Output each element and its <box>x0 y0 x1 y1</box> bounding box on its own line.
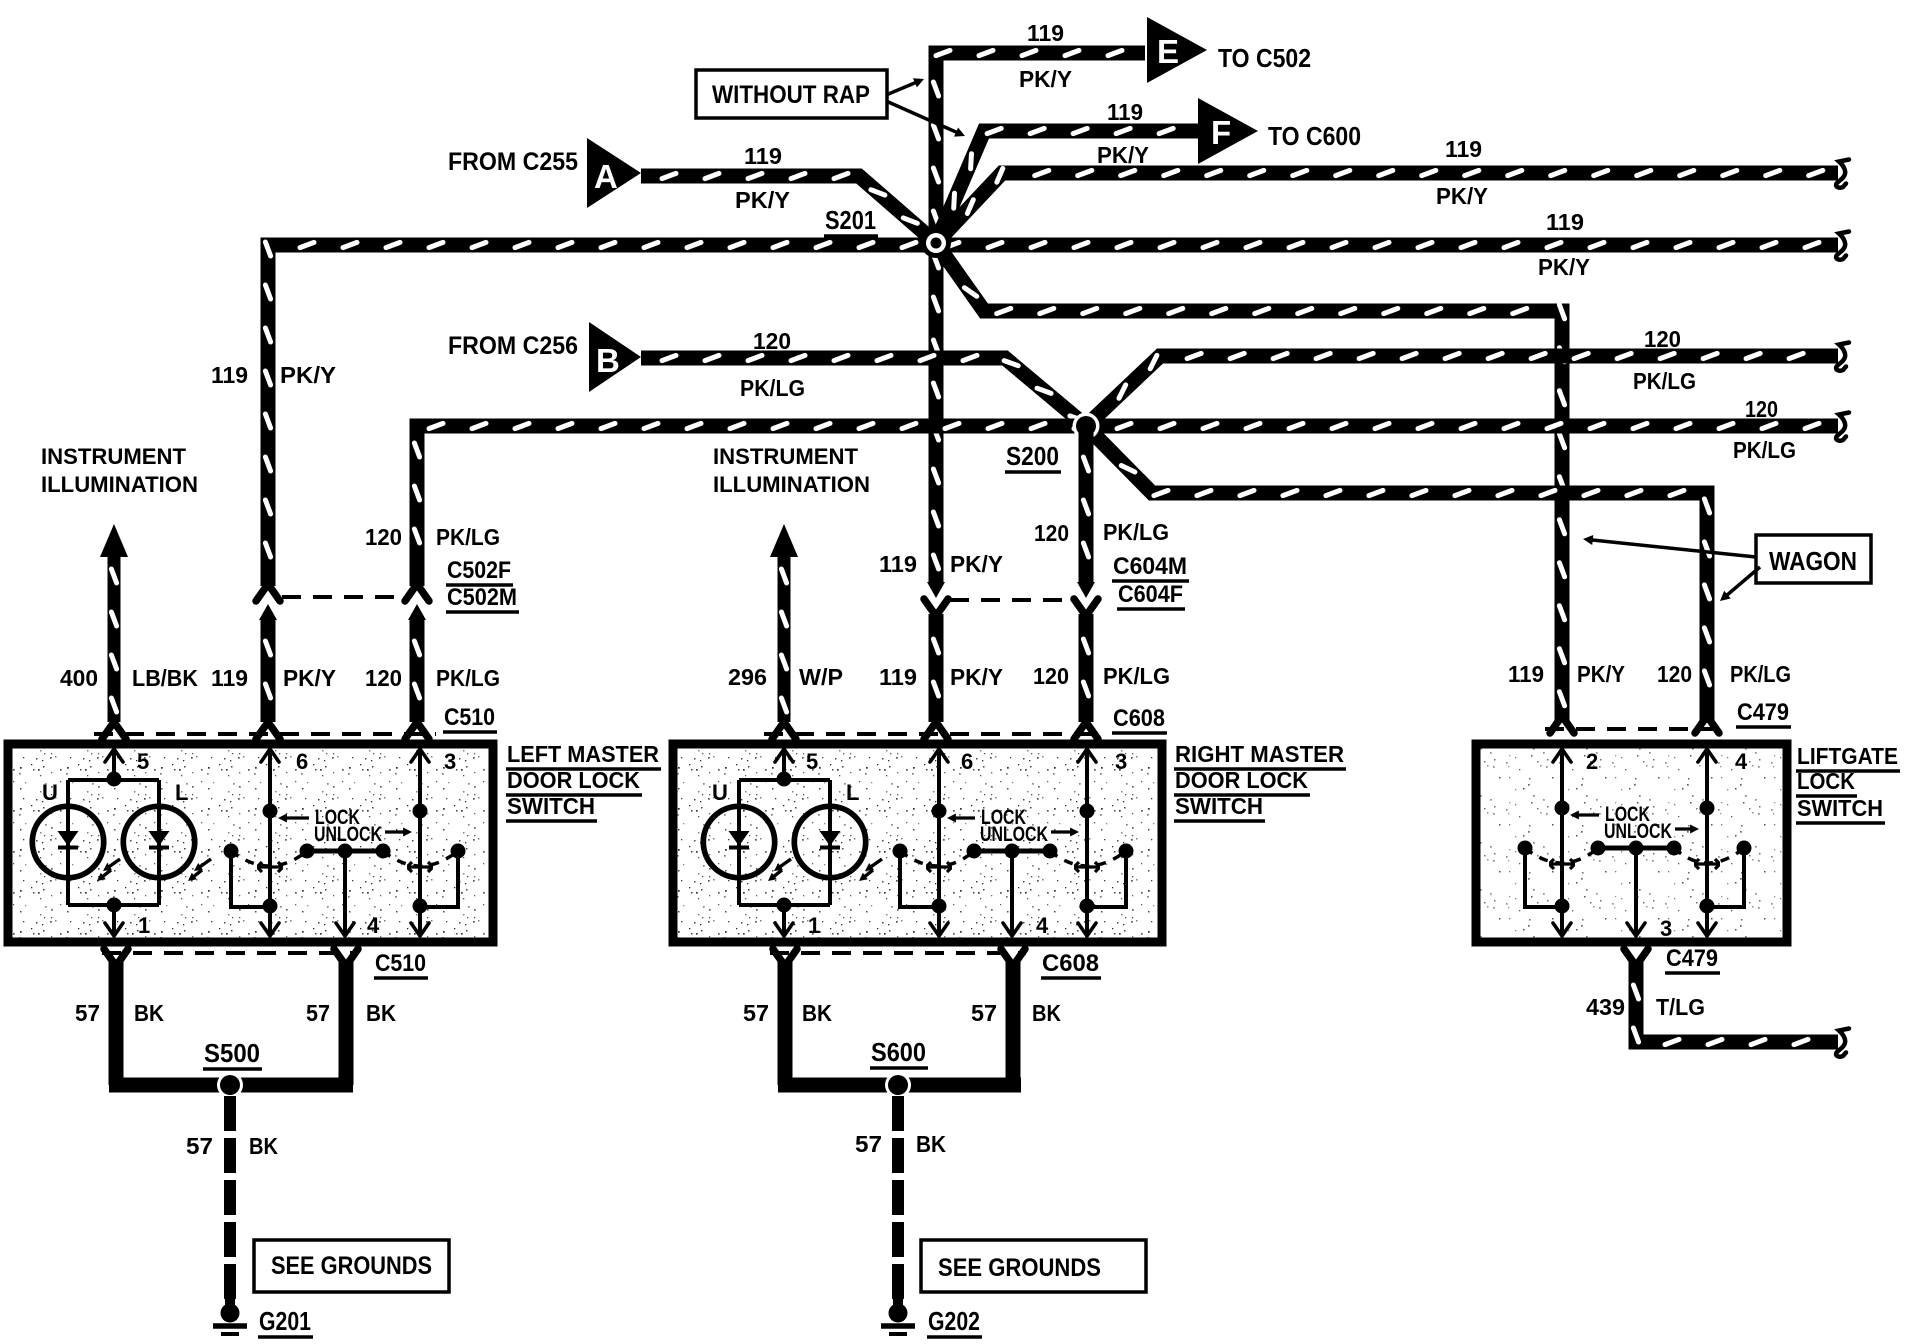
wire 439 T/LG from liftgate pin 3 to right edge <box>1636 962 1838 1042</box>
svg-text:4: 4 <box>1735 749 1748 774</box>
svg-text:C510: C510 <box>444 704 495 731</box>
svg-text:PK/Y: PK/Y <box>1097 142 1149 168</box>
connector C608 bottom forks <box>773 949 797 966</box>
svg-text:C604F: C604F <box>1118 581 1183 608</box>
splice S500 junction <box>217 1072 243 1098</box>
connector C510 top forks <box>102 722 126 739</box>
svg-text:119: 119 <box>879 664 917 690</box>
svg-text:119: 119 <box>1508 661 1544 687</box>
svg-text:C510: C510 <box>375 950 426 977</box>
svg-text:120: 120 <box>365 665 402 691</box>
splice S200 junction <box>1073 413 1100 440</box>
callout arrow WAGON to pin4 wire <box>1726 567 1760 596</box>
svg-text:WITHOUT RAP: WITHOUT RAP <box>712 81 870 109</box>
svg-text:120: 120 <box>1657 661 1692 687</box>
connector arrow F <box>1198 98 1258 164</box>
wire 57 BK to ground G202 (dashed) <box>892 1096 904 1300</box>
svg-text:L: L <box>846 780 859 805</box>
connector arrow A (FROM C255) <box>587 138 641 208</box>
splice S201 junction <box>921 228 951 258</box>
svg-text:PK/LG: PK/LG <box>436 524 500 550</box>
svg-text:119: 119 <box>1546 209 1584 235</box>
wire 120 PK/LG C604F to C608 <box>1079 614 1094 722</box>
svg-text:PK/Y: PK/Y <box>735 187 790 213</box>
wire break hook (row 3) <box>1836 343 1849 371</box>
svg-text:1: 1 <box>138 913 150 938</box>
svg-text:TO C600: TO C600 <box>1268 121 1361 151</box>
connector C479 top dashed line <box>1545 727 1726 731</box>
svg-text:C502M: C502M <box>447 584 517 611</box>
svg-text:SEE GROUNDS: SEE GROUNDS <box>938 1254 1101 1282</box>
svg-text:SWITCH: SWITCH <box>1175 793 1263 819</box>
switch body LEFT MASTER DOOR LOCK SWITCH <box>8 744 493 942</box>
svg-text:INSTRUMENT: INSTRUMENT <box>41 444 187 469</box>
ground G201 <box>225 1298 235 1306</box>
svg-text:5: 5 <box>806 749 818 774</box>
connector C502 mating dashed line <box>282 595 403 599</box>
callout box WAGON <box>1756 535 1871 583</box>
svg-text:LOCK: LOCK <box>1797 768 1855 794</box>
svg-text:C479: C479 <box>1737 699 1789 726</box>
svg-text:119: 119 <box>1027 20 1064 46</box>
svg-text:E: E <box>1157 33 1179 70</box>
wire 296 W/P instrument illumination arrow (middle) <box>770 524 798 557</box>
svg-text:SWITCH: SWITCH <box>507 793 595 819</box>
wire 120 PK/LG C502M to C510 <box>410 618 425 722</box>
wire 119 PK/Y from S201 up to connector E and down to C604M (net 119) <box>936 53 1145 584</box>
wire 119 PK/Y from connector A to splice S201 <box>641 176 936 243</box>
svg-text:PK/LG: PK/LG <box>1730 661 1791 687</box>
svg-text:WAGON: WAGON <box>1769 546 1857 576</box>
svg-text:120: 120 <box>365 524 402 550</box>
svg-text:5: 5 <box>137 749 149 774</box>
switch contacts (liftgate lock switch) <box>1562 750 1707 934</box>
wire break hook (row 1) <box>1836 160 1849 188</box>
svg-text:BK: BK <box>916 1131 946 1157</box>
wire 120 PK/LG horizontal through S200 with left branch down to C502F (row 4) <box>417 426 1838 586</box>
svg-text:PK/LG: PK/LG <box>436 665 500 691</box>
svg-text:UNLOCK: UNLOCK <box>980 823 1048 846</box>
connector arrow E <box>1147 17 1207 83</box>
svg-text:ILLUMINATION: ILLUMINATION <box>41 472 198 497</box>
svg-text:F: F <box>1211 114 1231 151</box>
svg-text:57: 57 <box>971 1000 997 1026</box>
svg-text:LEFT MASTER: LEFT MASTER <box>507 741 659 767</box>
svg-text:120: 120 <box>1033 663 1069 689</box>
connector C604M male arrow (120 wire) <box>1077 582 1095 598</box>
svg-text:DOOR LOCK: DOOR LOCK <box>507 767 640 793</box>
lamp section with diodes U and L (right master switch) <box>739 750 830 934</box>
svg-text:U: U <box>42 780 58 805</box>
pin arrows bottom (left master switch) <box>105 912 123 936</box>
svg-text:PK/LG: PK/LG <box>1733 437 1796 463</box>
wire 119 PK/Y C604F to C608 <box>929 614 944 722</box>
callout box WITHOUT RAP <box>696 70 887 118</box>
callout box SEE GROUNDS (left) <box>254 1240 449 1292</box>
svg-text:120: 120 <box>1644 326 1681 352</box>
svg-text:SWITCH: SWITCH <box>1797 795 1883 821</box>
svg-text:PK/Y: PK/Y <box>950 551 1003 577</box>
wire 120 PK/LG from connector B to splice S200 <box>641 358 1086 426</box>
svg-text:C502F: C502F <box>447 557 511 584</box>
pin arrows top (right master switch) <box>775 749 793 774</box>
svg-text:B: B <box>596 342 620 379</box>
svg-text:119: 119 <box>1445 136 1482 162</box>
svg-text:C608: C608 <box>1113 705 1165 732</box>
svg-text:ILLUMINATION: ILLUMINATION <box>713 472 870 497</box>
wire 120 PK/LG from S200 to right edge (row 3) <box>1086 356 1838 426</box>
svg-text:57: 57 <box>743 1000 769 1026</box>
wire 119 PK/Y from S201 to liftgate lock switch pin 2 <box>936 243 1562 722</box>
wire break hook (row 2) <box>1836 232 1849 260</box>
svg-text:400: 400 <box>60 665 98 691</box>
svg-text:120: 120 <box>753 328 791 354</box>
connector C479 top forks <box>1550 716 1574 733</box>
svg-text:C479: C479 <box>1666 945 1718 972</box>
wire 119 PK/Y from S201 to connector F (net 119) <box>936 131 1198 243</box>
svg-text:UNLOCK: UNLOCK <box>314 823 382 846</box>
svg-text:119: 119 <box>211 362 248 388</box>
connector C608 top dashed line <box>764 732 1104 736</box>
svg-text:BK: BK <box>249 1133 278 1159</box>
svg-text:UNLOCK: UNLOCK <box>1604 820 1672 843</box>
svg-text:TO C502: TO C502 <box>1218 43 1311 73</box>
svg-text:PK/Y: PK/Y <box>280 362 336 388</box>
svg-text:PK/Y: PK/Y <box>283 665 336 691</box>
svg-text:L: L <box>175 780 188 805</box>
svg-text:DOOR LOCK: DOOR LOCK <box>1175 767 1308 793</box>
svg-text:W/P: W/P <box>799 664 843 690</box>
svg-text:S500: S500 <box>204 1038 260 1068</box>
svg-text:LB/BK: LB/BK <box>132 665 198 691</box>
svg-text:FROM C255: FROM C255 <box>448 148 578 176</box>
svg-text:57: 57 <box>186 1133 213 1159</box>
lamp section with diodes U and L (left master switch) <box>68 750 159 934</box>
pin arrows bottom (right master switch) <box>775 912 793 936</box>
switch body RIGHT MASTER DOOR LOCK SWITCH <box>673 744 1162 942</box>
svg-text:PK/LG: PK/LG <box>1103 663 1170 689</box>
connector C604F female fork (119 wire) <box>924 599 948 616</box>
wire break hook (439 wire) <box>1836 1029 1849 1057</box>
svg-text:PK/Y: PK/Y <box>1577 661 1625 687</box>
svg-text:G202: G202 <box>928 1306 980 1336</box>
svg-text:119: 119 <box>211 665 248 691</box>
callout arrow to wire E vertical <box>886 82 916 95</box>
wire 120 PK/LG from S200 to liftgate lock switch pin 4 <box>1086 426 1707 722</box>
splice S600 junction <box>885 1072 911 1098</box>
svg-text:S600: S600 <box>871 1037 926 1067</box>
ground G202 <box>893 1298 903 1306</box>
wire 120 PK/LG S200 down to C604M <box>1079 426 1094 584</box>
wire 119 PK/Y long horizontal through S201 and left branch down to C502F (row 2) <box>268 245 1838 586</box>
connector C604F female fork (120 wire) <box>1074 599 1098 616</box>
connector C510 bottom forks <box>104 949 128 966</box>
switch body LIFTGATE LOCK SWITCH <box>1476 744 1787 942</box>
svg-text:120: 120 <box>1034 520 1069 546</box>
wire 119 PK/Y from S201 to right edge (row 1) <box>936 173 1838 243</box>
svg-text:57: 57 <box>306 1000 330 1026</box>
svg-text:PK/Y: PK/Y <box>1019 66 1072 92</box>
callout arrow WAGON to pin2 wire <box>1591 540 1756 557</box>
switch contacts (right master switch) <box>939 750 1087 934</box>
svg-text:3: 3 <box>1115 749 1127 774</box>
connector C604 mating dashed line <box>950 598 1072 602</box>
svg-text:A: A <box>594 158 618 195</box>
svg-text:S201: S201 <box>825 205 876 235</box>
svg-text:FROM C256: FROM C256 <box>448 332 578 360</box>
connector C604M male arrow (119 wire) <box>927 582 945 598</box>
svg-text:4: 4 <box>1036 913 1049 938</box>
svg-text:57: 57 <box>855 1131 882 1157</box>
svg-text:57: 57 <box>75 1000 100 1026</box>
svg-text:SEE GROUNDS: SEE GROUNDS <box>271 1252 432 1280</box>
pin arrows bottom (liftgate switch) <box>1553 912 1571 936</box>
svg-text:4: 4 <box>367 913 380 938</box>
connector C502F female fork (120 wire) <box>405 584 429 601</box>
svg-text:1: 1 <box>808 913 820 938</box>
svg-text:6: 6 <box>296 749 308 774</box>
connector C502M male arrow (120 wire) <box>408 604 426 620</box>
connector C608 bottom dashed line <box>770 951 1026 955</box>
svg-text:119: 119 <box>1107 99 1143 125</box>
svg-text:BK: BK <box>1032 1000 1061 1026</box>
svg-text:3: 3 <box>1660 916 1672 941</box>
pin arrows top (liftgate switch) <box>1553 749 1571 774</box>
svg-text:439: 439 <box>1586 994 1625 1020</box>
svg-text:119: 119 <box>744 143 782 169</box>
svg-text:LIFTGATE: LIFTGATE <box>1797 743 1898 769</box>
svg-text:120: 120 <box>1745 396 1778 422</box>
pin arrows top (left master switch) <box>105 749 123 774</box>
wire 119 PK/Y C502M to C510 <box>261 618 276 722</box>
connector arrow B (FROM C256) <box>589 322 641 392</box>
callout arrow to wire F diagonal <box>886 101 958 133</box>
svg-text:119: 119 <box>879 551 917 577</box>
svg-text:PK/Y: PK/Y <box>1436 183 1488 209</box>
svg-text:BK: BK <box>802 1000 832 1026</box>
svg-text:C604M: C604M <box>1113 553 1187 580</box>
svg-text:U: U <box>712 780 728 805</box>
svg-text:PK/Y: PK/Y <box>950 664 1003 690</box>
svg-text:6: 6 <box>961 749 973 774</box>
svg-text:PK/Y: PK/Y <box>1538 254 1590 280</box>
svg-text:296: 296 <box>728 664 767 690</box>
callout box SEE GROUNDS (right) <box>921 1240 1146 1292</box>
svg-text:S200: S200 <box>1006 441 1059 471</box>
svg-text:INSTRUMENT: INSTRUMENT <box>713 444 859 469</box>
svg-text:2: 2 <box>1586 749 1598 774</box>
svg-text:G201: G201 <box>259 1306 311 1336</box>
svg-text:PK/LG: PK/LG <box>1103 519 1169 545</box>
svg-text:C608: C608 <box>1042 950 1099 977</box>
connector C502M male arrow (119 wire) <box>259 604 277 620</box>
svg-text:PK/LG: PK/LG <box>740 375 805 401</box>
svg-text:RIGHT MASTER: RIGHT MASTER <box>1175 741 1344 767</box>
wire break hook (row 4) <box>1836 413 1849 441</box>
svg-text:T/LG: T/LG <box>1656 994 1705 1020</box>
svg-text:BK: BK <box>366 1000 396 1026</box>
svg-text:PK/LG: PK/LG <box>1633 368 1696 394</box>
wire 400 LB/BK instrument illumination arrow (left) <box>100 524 128 557</box>
switch contacts (left master switch) <box>270 750 420 934</box>
connector C479 bottom fork <box>1624 949 1648 966</box>
wire 57 BK to ground G201 (dashed) <box>224 1096 236 1300</box>
connector C510 bottom dashed line <box>102 951 358 955</box>
wire 57 BK left (S500 loop) <box>109 960 124 1085</box>
wire 57 BK (S600 loop) <box>778 960 793 1085</box>
connector C502F female fork (119 wire) <box>256 584 280 601</box>
connector C510 top dashed line <box>94 732 436 736</box>
svg-text:BK: BK <box>134 1000 164 1026</box>
connector C608 top forks <box>772 722 796 739</box>
svg-text:3: 3 <box>444 749 456 774</box>
